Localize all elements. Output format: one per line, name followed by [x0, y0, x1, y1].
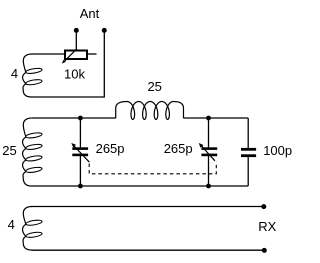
inductor L1 (4 turns label) backbone [23, 54, 32, 97]
wire L4 top to RX [31, 206, 262, 208]
inductor L2 loop 4 [25, 166, 42, 173]
terminal dot Ant left [74, 28, 79, 33]
capacitor C2 top plate [201, 147, 217, 150]
junction dot top rail / C2 [206, 116, 211, 121]
inductor L3 horizontal 25 turns [116, 102, 184, 120]
capacitor C2 bottom plate [201, 154, 217, 157]
svg-text:4: 4 [8, 217, 15, 232]
svg-text:265p: 265p [96, 141, 125, 156]
wire middle bottom rail [32, 185, 249, 187]
svg-text:Ant: Ant [80, 6, 100, 21]
inductor L2 (25 turn tank coil) backbone [23, 118, 32, 186]
inductor L2 loop 3 [25, 155, 42, 162]
wire C2 branch lower [208, 156, 210, 186]
capacitor C1 arrow [73, 145, 90, 163]
potentiometer R1 body [65, 51, 87, 60]
svg-text:10k: 10k [64, 67, 85, 82]
dashed gang link C1-C2 [89, 162, 216, 174]
svg-text:25: 25 [2, 143, 16, 158]
inductor L2 loop 1 [25, 132, 42, 139]
wire middle top rail left [32, 117, 116, 119]
wire Ant-right dot down to coil L1 bottom [31, 30, 104, 97]
junction dot bottom rail / C1 [78, 184, 83, 189]
svg-text:100p: 100p [263, 143, 292, 158]
potentiometer R1 right stub wire [88, 53, 97, 55]
wire middle top rail right of inductor [184, 117, 249, 119]
terminal dot Ant right [102, 28, 107, 33]
wire C3 bottom to bottom rail [247, 157, 249, 186]
wire L4 bottom to RX [32, 249, 263, 251]
svg-text:RX: RX [258, 219, 276, 234]
wire C2 branch upper [208, 118, 210, 147]
capacitor C1 bottom plate [72, 154, 88, 157]
inductor L2 loop 2 [25, 143, 42, 150]
inductor L1 loop 1 [25, 67, 42, 74]
svg-text:25: 25 [147, 79, 161, 94]
junction dot top rail / C1 [78, 116, 83, 121]
junction dot bottom rail / C2 [206, 184, 211, 189]
wire right rail to C3 top [247, 118, 249, 148]
terminal dot RX top [261, 204, 266, 209]
svg-text:4: 4 [11, 66, 18, 81]
inductor L4 (4 turns output link) backbone [23, 207, 32, 251]
wire Ant-left dot to potentiometer wiper [75, 30, 77, 49]
wire C1 branch lower [79, 156, 81, 186]
inductor L4 loop 2 [25, 231, 42, 238]
capacitor C3 bottom plate [241, 154, 256, 157]
wire C1 branch upper [79, 118, 81, 147]
capacitor C1 top plate [72, 147, 88, 150]
svg-text:265p: 265p [164, 141, 193, 156]
inductor L1 loop 2 [25, 79, 42, 86]
terminal dot RX bottom [262, 248, 267, 253]
potentiometer R1 wiper arrow diagonal [64, 49, 77, 62]
inductor L4 loop 1 [25, 219, 42, 226]
capacitor C2 arrow [200, 145, 215, 161]
potentiometer R1 left lead wire [31, 53, 64, 55]
capacitor C3 top plate [241, 148, 256, 151]
